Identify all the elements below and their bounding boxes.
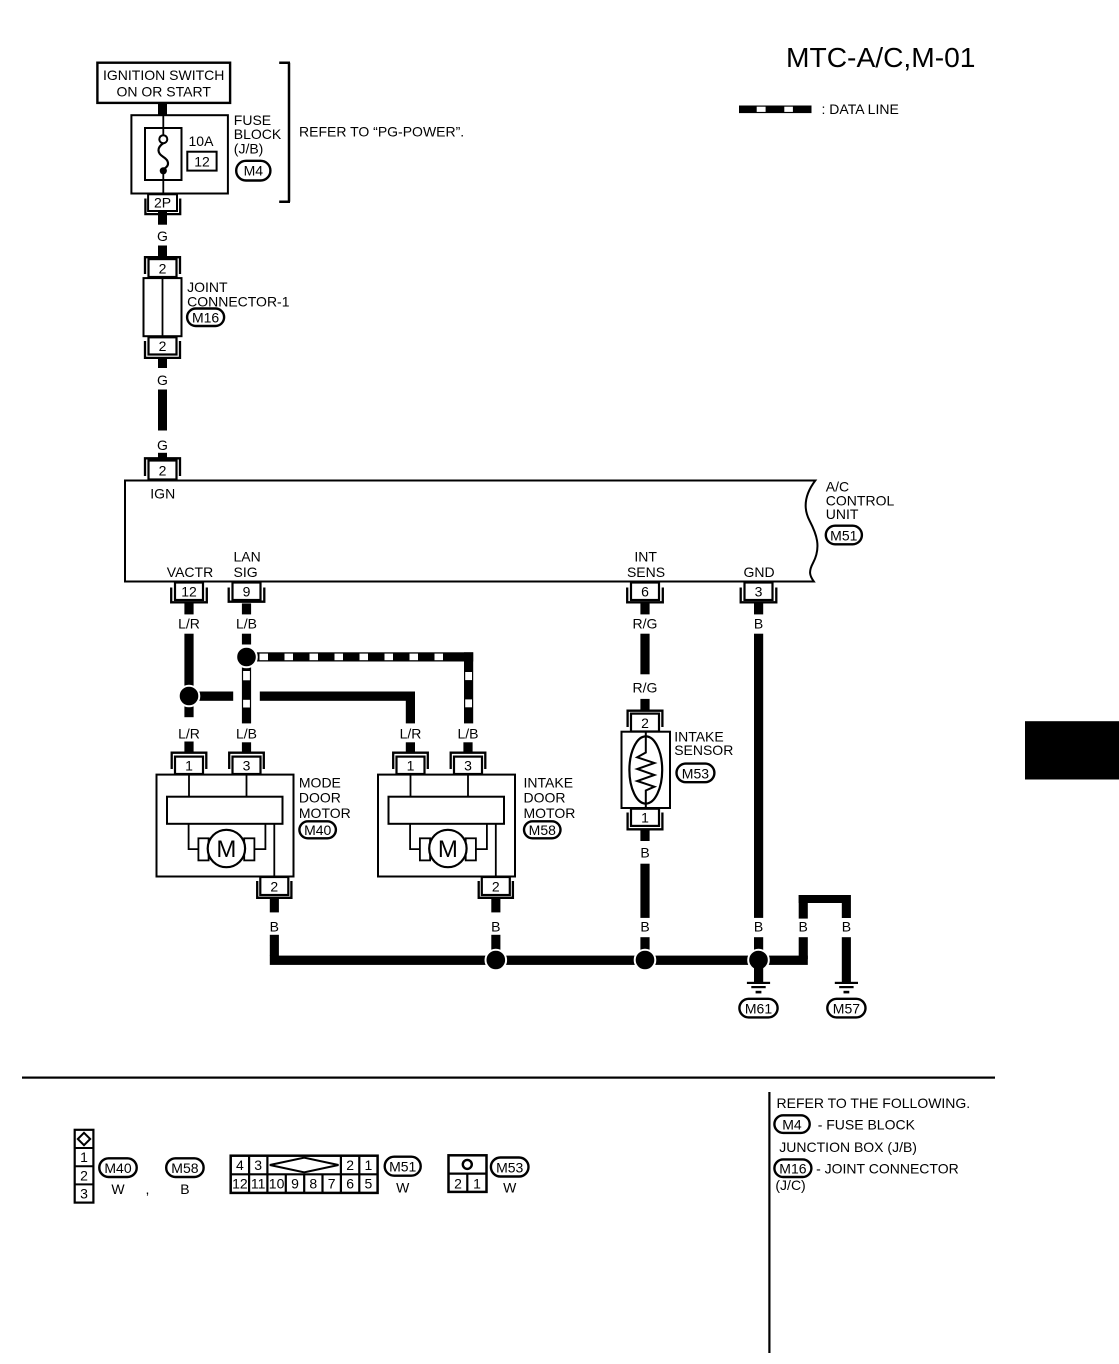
svg-text:12: 12: [232, 1176, 248, 1192]
svg-text:B: B: [270, 919, 279, 935]
svg-text:M53: M53: [682, 765, 709, 781]
connector M4 oval (footer): [774, 1115, 809, 1133]
svg-text:M40: M40: [104, 1160, 131, 1176]
svg-text:B: B: [180, 1181, 189, 1197]
label INTAKE SENSOR: [674, 729, 733, 759]
svg-text:3: 3: [243, 757, 251, 773]
wire sensor lower segment to bus: [640, 937, 649, 956]
svg-text:2: 2: [346, 1157, 354, 1173]
svg-text:B: B: [754, 919, 763, 935]
connector face M51 grid: [231, 1156, 378, 1193]
svg-text:M53: M53: [496, 1159, 523, 1175]
svg-text:UNIT: UNIT: [826, 506, 859, 522]
svg-text:5: 5: [365, 1176, 373, 1192]
connector M58 oval (footer): [166, 1158, 203, 1177]
fuse number 12 box: [187, 152, 216, 171]
data line vertical on L/B wire to mode door motor pin 3: [242, 666, 251, 723]
svg-text:M58: M58: [171, 1160, 198, 1176]
joint connector top pin 2: [145, 257, 180, 277]
wire: [158, 246, 167, 258]
mode door motor pin 1: [172, 753, 207, 774]
connector M40 oval (footer): [99, 1158, 136, 1177]
label FUSE BLOCK (J/B): [234, 112, 282, 156]
svg-text:2: 2: [159, 338, 167, 354]
svg-text:- FUSE BLOCK: - FUSE BLOCK: [818, 1116, 916, 1132]
svg-text:JUNCTION BOX (J/B): JUNCTION BOX (J/B): [779, 1139, 917, 1155]
svg-text:MOTOR: MOTOR: [299, 805, 351, 821]
svg-text:M40: M40: [304, 822, 331, 838]
svg-text:1: 1: [407, 757, 415, 773]
svg-text:ON OR START: ON OR START: [117, 83, 212, 99]
wire stub pin 3: [754, 603, 763, 614]
wire hook up-leg lower: [799, 937, 808, 959]
intake door motor pin 2: [479, 877, 513, 898]
svg-text:M51: M51: [389, 1159, 416, 1175]
svg-text:,: ,: [146, 1181, 150, 1197]
pin 3: [741, 583, 777, 603]
footer horizontal rule: [22, 1077, 995, 1079]
wire stub below intake sensor pin 1: [640, 831, 649, 842]
svg-text:2P: 2P: [154, 195, 171, 211]
ignition switch box: [97, 63, 230, 103]
svg-text:1: 1: [641, 810, 649, 826]
svg-text:6: 6: [641, 584, 649, 600]
svg-text:9: 9: [243, 584, 251, 600]
svg-text:M: M: [438, 836, 458, 863]
svg-text:REFER TO THE FOLLOWING.: REFER TO THE FOLLOWING.: [777, 1095, 971, 1111]
svg-text:9: 9: [291, 1176, 299, 1192]
svg-text:B: B: [640, 844, 649, 860]
pin name INT SENS: [627, 549, 665, 580]
svg-text:2: 2: [454, 1176, 462, 1192]
pin name LAN SIG: [234, 549, 261, 580]
pin 12: [171, 583, 207, 603]
svg-text:L/B: L/B: [457, 725, 478, 741]
svg-text:B: B: [799, 919, 808, 935]
svg-text:1: 1: [80, 1149, 88, 1165]
svg-text:12: 12: [181, 584, 197, 600]
node junction dot gnd leg: [748, 950, 769, 971]
svg-text:R/G: R/G: [633, 615, 658, 631]
wire stubs above motor pins: [184, 742, 472, 754]
fuse 10A 12 symbol: [158, 116, 168, 194]
label JOINT CONNECTOR-1: [187, 279, 290, 309]
connector M61 oval: [739, 999, 777, 1018]
svg-text:L/R: L/R: [178, 725, 200, 741]
wire stub below mode motor pin 2: [270, 899, 279, 912]
svg-text:11: 11: [251, 1176, 266, 1192]
label MODE DOOR MOTOR: [299, 774, 351, 821]
intake door motor pin 3: [451, 753, 486, 774]
svg-text:M16: M16: [192, 309, 219, 325]
intake sensor pin 2: [628, 711, 663, 732]
fuse block M4 outer box: [131, 115, 228, 193]
svg-text:SIG: SIG: [234, 564, 258, 580]
intake sensor pin 1: [628, 809, 663, 830]
connector M53 oval (footer): [491, 1158, 529, 1177]
wire stub: [158, 453, 167, 459]
svg-text:2: 2: [641, 715, 649, 731]
page index black tab: [1025, 721, 1119, 779]
svg-text:: DATA LINE: : DATA LINE: [822, 101, 899, 117]
svg-text:1: 1: [185, 757, 193, 773]
fuse box inner: [145, 128, 182, 180]
connector M40 oval: [299, 821, 336, 838]
svg-text:DOOR: DOOR: [524, 790, 566, 806]
svg-text:M4: M4: [782, 1116, 802, 1132]
connector M4 oval: [236, 161, 270, 181]
svg-text:GND: GND: [744, 564, 775, 580]
svg-text:10: 10: [269, 1176, 285, 1192]
svg-text:2: 2: [159, 462, 167, 478]
svg-text:L/B: L/B: [236, 615, 257, 631]
wire hook right leg upper: [842, 903, 851, 918]
svg-text:1: 1: [365, 1157, 373, 1173]
svg-text:SENSOR: SENSOR: [674, 742, 733, 758]
svg-text:MOTOR: MOTOR: [524, 805, 576, 821]
wire L/R horizontal branch: [189, 692, 415, 724]
connector face M40/M58 pin column: [75, 1130, 94, 1203]
svg-text:3: 3: [464, 757, 472, 773]
wire R/G from pin 6: [640, 634, 649, 675]
svg-text:G: G: [157, 372, 168, 388]
label INTAKE DOOR MOTOR: [524, 774, 576, 821]
svg-text:M: M: [216, 836, 236, 863]
svg-text:M4: M4: [244, 163, 264, 179]
footer vertical divider: [768, 1092, 770, 1353]
svg-text:DOOR: DOOR: [299, 790, 341, 806]
data line horizontal from LAN SIG: [250, 652, 473, 661]
wire hook right leg to ground: [842, 937, 851, 982]
wire hook up-leg upper: [799, 895, 808, 919]
wire to ground bus: [270, 935, 279, 956]
svg-text:3: 3: [755, 584, 763, 600]
svg-text:B: B: [640, 919, 649, 935]
svg-text:LAN: LAN: [234, 549, 261, 565]
wire sensor to bus: [640, 864, 649, 918]
wire L/R stub above mode motor pin 1: [184, 705, 193, 717]
ground bus wire: [270, 956, 808, 965]
svg-text:6: 6: [346, 1176, 354, 1192]
connector M51 oval: [826, 526, 862, 545]
svg-text:G: G: [157, 437, 168, 453]
ground symbol M61: [747, 982, 770, 994]
svg-text:3: 3: [80, 1186, 88, 1202]
svg-text:- JOINT CONNECTOR: - JOINT CONNECTOR: [816, 1160, 959, 1176]
connector M53 oval: [677, 764, 715, 783]
joint connector bottom pin 2: [145, 337, 180, 358]
wire stub pin 9: [242, 603, 251, 614]
node junction dot sensor leg: [635, 950, 656, 971]
svg-text:INTAKE: INTAKE: [524, 774, 574, 790]
svg-text:M51: M51: [830, 527, 857, 543]
node junction dot intake motor leg: [486, 950, 507, 971]
svg-text:W: W: [503, 1179, 517, 1195]
svg-text:7: 7: [328, 1176, 336, 1192]
pin 9: [229, 583, 265, 602]
node junction dot on L/B (data): [236, 647, 257, 668]
wire stub below intake motor pin 2: [491, 899, 500, 912]
connector M16 oval: [187, 309, 224, 327]
op-amp A/C control unit box M51: [125, 481, 817, 582]
svg-text:2: 2: [159, 260, 167, 276]
svg-text:INT: INT: [634, 549, 657, 565]
svg-text:MTC-A/C,M-01: MTC-A/C,M-01: [786, 41, 975, 73]
svg-text:2: 2: [80, 1167, 88, 1183]
svg-text:M58: M58: [529, 822, 556, 838]
wire stub pin 12: [184, 603, 193, 614]
wire stub pin 6: [640, 603, 649, 614]
svg-text:R/G: R/G: [633, 679, 658, 695]
svg-text:1: 1: [473, 1176, 481, 1192]
svg-text:12: 12: [194, 154, 210, 170]
label A/C CONTROL UNIT: [826, 479, 895, 522]
svg-text:W: W: [111, 1181, 125, 1197]
svg-text:B: B: [754, 615, 763, 631]
wire L/R down from pin 12: [184, 634, 193, 688]
control unit top pin 2: [145, 458, 180, 479]
bracket refer to PG-POWER: [279, 63, 290, 202]
svg-text:(J/C): (J/C): [775, 1177, 805, 1193]
svg-text:IGN: IGN: [150, 486, 175, 502]
svg-text:VACTR: VACTR: [167, 564, 213, 580]
svg-text:3: 3: [254, 1157, 262, 1173]
svg-text:G: G: [157, 228, 168, 244]
mode door motor pin 3: [229, 753, 264, 774]
mode door motor pin 2: [257, 877, 291, 898]
wire gnd lower segment to bus: [754, 937, 763, 956]
svg-text:W: W: [396, 1179, 410, 1195]
wire hook top bar: [799, 895, 851, 903]
motor M58 intake door motor box: [378, 775, 515, 877]
connector M57 oval: [827, 999, 865, 1018]
motor M40 mode door motor box: [157, 775, 294, 877]
pin 6: [627, 583, 663, 603]
svg-text:L/R: L/R: [178, 615, 200, 631]
node junction dot on L/R: [179, 686, 200, 707]
svg-text:CONNECTOR-1: CONNECTOR-1: [187, 293, 290, 309]
svg-text:IGNITION SWITCH: IGNITION SWITCH: [103, 67, 224, 83]
connector 2P: [145, 194, 180, 214]
svg-text:L/R: L/R: [400, 725, 422, 741]
svg-text:2: 2: [270, 878, 278, 894]
wire L/B stub from pin 9: [242, 634, 251, 645]
wire dot to ground M61: [754, 966, 763, 982]
svg-text:10A: 10A: [189, 133, 215, 149]
connector M16 oval (footer): [774, 1159, 811, 1177]
ground symbol M57: [835, 982, 858, 994]
svg-text:8: 8: [309, 1176, 317, 1192]
connector face M53: [449, 1155, 487, 1192]
svg-text:SENS: SENS: [627, 564, 665, 580]
svg-text:M16: M16: [779, 1160, 806, 1176]
svg-text:B: B: [842, 919, 851, 935]
wire: [158, 390, 167, 431]
wire ignition switch to fuse block: [158, 103, 167, 116]
connector M58 oval: [524, 821, 561, 838]
wire stub: [158, 359, 167, 369]
data line legend: [739, 101, 899, 117]
svg-text:MODE: MODE: [299, 774, 341, 790]
joint connector M16 body: [144, 278, 182, 336]
wire stub above intake sensor pin 2: [640, 699, 649, 710]
svg-text:B: B: [491, 919, 500, 935]
svg-text:4: 4: [236, 1157, 244, 1173]
svg-text:REFER TO “PG-POWER”.: REFER TO “PG-POWER”.: [299, 123, 464, 139]
intake door motor pin 1: [393, 753, 428, 774]
svg-text:L/B: L/B: [236, 725, 257, 741]
connector M51 oval (footer): [385, 1157, 421, 1176]
svg-text:(J/B): (J/B): [234, 140, 264, 156]
wire stub below 2P: [158, 212, 167, 225]
wire to ground bus: [491, 935, 500, 956]
svg-text:M57: M57: [833, 1000, 860, 1016]
svg-text:2: 2: [492, 878, 500, 894]
wire B from pin 3 (GND) long run: [754, 634, 763, 918]
thermistor intake sensor M53 box: [622, 732, 671, 808]
svg-text:M61: M61: [745, 1000, 772, 1016]
data line vertical leg to intake door motor pin 3: [464, 652, 473, 723]
